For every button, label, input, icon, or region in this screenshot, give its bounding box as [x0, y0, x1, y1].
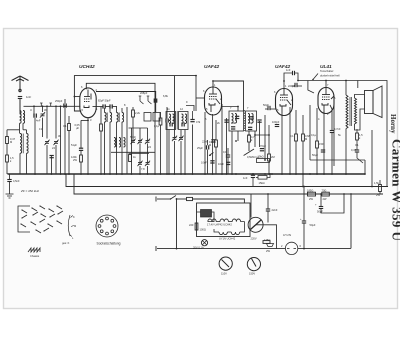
wire: IF1 drops — [169, 76, 204, 175]
tone switch — [312, 79, 314, 81]
wire: left heater vertical — [176, 199, 178, 249]
svg-text:15kΩ: 15kΩ — [258, 155, 264, 159]
tube socket diagram — [96, 215, 118, 237]
capacitor blob input — [33, 114, 35, 118]
volume potentiometer 0,5M log — [244, 142, 254, 156]
resistor 120k 2W — [80, 155, 83, 162]
svg-text:10nF: 10nF — [218, 162, 224, 166]
wire: B+ top line from UCH42 area to IF1 — [74, 76, 196, 111]
antenna plug — [19, 89, 22, 92]
wire: grid/osc node — [93, 106, 104, 108]
svg-text:208pF: 208pF — [140, 91, 148, 95]
svg-text:70Ω: 70Ω — [322, 189, 327, 193]
svg-text:10nF: 10nF — [201, 161, 207, 165]
mains switch — [170, 198, 171, 199]
svg-text:185Ω: 185Ω — [307, 189, 313, 193]
svg-text:0,1: 0,1 — [290, 134, 294, 138]
electrolytic 50uF + — [302, 221, 306, 223]
resistor 150 cathode UL41 — [316, 141, 319, 148]
resistor 0,1M — [295, 134, 298, 141]
wire: osc vertical from top line — [174, 76, 176, 131]
svg-text:22nF: 22nF — [202, 140, 208, 144]
svg-text:150: 150 — [319, 142, 324, 146]
trimmer pair right row1 — [172, 136, 177, 141]
heater UCH42b — [231, 232, 239, 235]
resistor R2 1,5k — [6, 155, 9, 162]
transformer core — [349, 97, 351, 126]
trimmer input — [40, 112, 45, 117]
svg-text:K: K — [73, 215, 75, 219]
antenna coil L1 — [20, 111, 22, 121]
capacitor 10nF — [210, 160, 214, 162]
svg-text:0,1: 0,1 — [355, 143, 359, 147]
wire: antenna node to input circuit — [19, 100, 21, 111]
capacitor 0,1uF — [226, 155, 230, 157]
resistor 1,5k right — [356, 133, 359, 140]
wire: heater rows — [197, 212, 245, 232]
svg-text:4,7nF: 4,7nF — [334, 127, 341, 131]
wire drops — [47, 131, 69, 175]
left column: coupling — [80, 120, 82, 148]
svg-text:15k: 15k — [231, 121, 236, 125]
svg-text:50p: 50p — [248, 121, 253, 125]
svg-text:2W: 2W — [73, 158, 77, 162]
wire: UL41 to top line — [325, 81, 327, 88]
switch contact b — [50, 103, 52, 106]
IF2 outer capacitor left — [224, 119, 228, 121]
resistor 15k below bus — [258, 176, 267, 180]
wire: tone feedback — [310, 130, 372, 187]
wire — [252, 174, 254, 175]
oscillator feedback coil — [114, 138, 116, 148]
capacitor 4,5nF to chassis ground — [9, 174, 11, 179]
svg-text:47k: 47k — [196, 120, 201, 124]
capacitor 10nF AF — [226, 161, 230, 163]
svg-text:µF: µF — [76, 126, 79, 130]
svg-text:4nF: 4nF — [36, 119, 41, 123]
svg-text:70pF: 70pF — [260, 144, 266, 148]
wire: screen line — [86, 83, 155, 128]
antenna — [12, 76, 29, 92]
svg-text:0,1: 0,1 — [63, 124, 67, 128]
output transformer secondary — [355, 98, 357, 124]
wire: UAF42-1 pin2 to IF2 — [222, 107, 239, 112]
wire: grid resistor drop — [100, 107, 102, 125]
resistor 0,1M right — [68, 124, 71, 131]
switch contact a — [40, 103, 42, 106]
anode capacitor 4,7nF — [330, 131, 334, 133]
svg-text:1nF: 1nF — [286, 68, 291, 72]
contact arrow — [209, 153, 214, 156]
svg-text:Carmen W 359 U: Carmen W 359 U — [390, 139, 400, 241]
UAF42 tube 2 — [276, 89, 293, 116]
node drops to chassis: left tuner — [20, 99, 70, 174]
svg-text:UAF42: UAF42 — [204, 64, 220, 70]
UAF42 tube 1 — [205, 87, 222, 115]
capacitor 1nF below bus — [251, 174, 255, 176]
resistor 0,1M cathode — [215, 140, 218, 147]
heater UAF42 — [220, 219, 228, 222]
oscillator coils L3 — [105, 113, 107, 123]
wire: UL41 cathode drops — [310, 103, 334, 174]
svg-text:UY1N UCH42: UY1N UCH42 — [219, 237, 236, 241]
wire: IF2 connections — [227, 115, 266, 174]
heater UF41 — [208, 219, 216, 222]
svg-text:100Ω: 100Ω — [200, 228, 206, 232]
resistor 2M — [268, 154, 271, 161]
svg-text:UCH42: UCH42 — [79, 64, 95, 70]
svg-text:0,1µ: 0,1µ — [154, 124, 160, 128]
svg-text:M: M — [209, 143, 211, 147]
capacitor 22nF — [211, 139, 215, 141]
svg-text:0,1µ: 0,1µ — [311, 133, 317, 137]
capacitor 25uF cathode — [206, 145, 208, 149]
input bandfilter coil L2 — [20, 134, 22, 144]
capacitor 1nF — [18, 97, 22, 99]
trimmer bank row1 — [130, 139, 135, 144]
svg-text:250pF: 250pF — [55, 99, 63, 103]
svg-text:15kΩ: 15kΩ — [259, 181, 265, 185]
capacitor 50pF — [109, 104, 111, 108]
bus C — [74, 174, 383, 194]
svg-text:1nF: 1nF — [26, 95, 31, 99]
svg-text:dunkel-mittel-hell: dunkel-mittel-hell — [320, 74, 340, 78]
svg-text:100pF: 100pF — [272, 120, 280, 124]
ground — [6, 194, 14, 198]
coupling capacitor 1nF — [293, 71, 295, 75]
resistor 50k grid — [100, 124, 103, 131]
resistor 0,68M — [302, 134, 305, 141]
svg-text:220V: 220V — [251, 237, 257, 241]
capacitor 82pF — [102, 104, 104, 108]
wire — [193, 199, 245, 203]
heater chain box — [197, 203, 251, 237]
svg-text:220: 220 — [189, 223, 194, 227]
svg-text:4,5nF: 4,5nF — [13, 179, 20, 183]
heater UCH42 — [232, 219, 240, 222]
trimmer C5 — [44, 140, 49, 145]
resistor box 15k — [257, 159, 270, 163]
capacitor 50pF grid — [268, 106, 270, 110]
rectifier UY1N — [285, 242, 297, 254]
wire: grid line UL41 — [298, 81, 387, 187]
resistor 4,7k — [248, 135, 251, 142]
svg-text:UY1N: UY1N — [283, 233, 292, 237]
svg-text:Sockelschaltung: Sockelschaltung — [97, 242, 121, 246]
IF2 outer capacitor right — [257, 119, 261, 121]
wire: selector connections — [251, 194, 277, 249]
voltage selector — [248, 217, 263, 232]
svg-text:82pF 50pF: 82pF 50pF — [98, 99, 111, 103]
svg-text:50pF: 50pF — [130, 135, 136, 139]
svg-text:175Ω: 175Ω — [264, 238, 270, 242]
svg-text:Horny: Horny — [389, 114, 397, 134]
resistor 185 ohm 2W — [308, 192, 316, 196]
UAF42-1 internals — [209, 87, 220, 112]
svg-text:50µF: 50µF — [312, 153, 318, 157]
svg-text:M: M — [74, 224, 76, 228]
knob 2 — [247, 258, 260, 271]
knob 1 — [219, 257, 232, 270]
mains lead bottom — [157, 248, 286, 250]
resistor 100 ohm — [195, 223, 198, 230]
chassis bus (thick) — [8, 173, 366, 175]
capacitor 100pF — [275, 125, 279, 127]
resistor R1 0,47M — [6, 137, 9, 144]
output transformer primary — [346, 95, 348, 129]
svg-text:M: M — [10, 140, 12, 144]
IF transformer 2 — [229, 110, 257, 131]
wire: rectifier output — [298, 247, 351, 249]
svg-text:50µF: 50µF — [310, 223, 316, 227]
svg-text:150V: 150V — [249, 272, 255, 276]
band switch detail box — [18, 206, 63, 233]
mains lead top — [157, 198, 170, 200]
svg-text:Chassis: Chassis — [30, 254, 40, 258]
IF2 trimmers — [231, 126, 235, 128]
IF2 tuning blobs — [235, 115, 239, 117]
UAF42-2 internals — [280, 89, 291, 114]
resistor 2,2k — [132, 110, 135, 117]
svg-text:2W: 2W — [323, 197, 327, 201]
chassis zigzag — [28, 248, 40, 252]
svg-text:Tonschalter:: Tonschalter: — [320, 69, 334, 73]
wire: B+ vertical right — [350, 194, 352, 248]
svg-text:1nF: 1nF — [243, 176, 248, 180]
svg-text:7,8: 7,8 — [141, 167, 145, 171]
wire: UAF42-1 anode to IF2 — [213, 81, 244, 111]
svg-text:50pF: 50pF — [263, 103, 269, 107]
capacitor 22nF mains — [266, 209, 270, 211]
wire: UAF42-1 cathode resistor drops — [205, 104, 222, 174]
band arc — [68, 215, 70, 236]
wire — [111, 151, 155, 153]
capacitor 51uF — [79, 147, 83, 149]
UCH42 tube — [80, 88, 96, 118]
wire antenna to tuner — [19, 99, 21, 114]
capacitor 70pF — [260, 148, 264, 150]
resistor 1k — [129, 155, 132, 162]
svg-text:U: U — [30, 108, 32, 112]
svg-text:20V 0,1A: 20V 0,1A — [193, 246, 204, 250]
wire — [26, 130, 28, 134]
svg-text:2W: 2W — [266, 249, 270, 253]
svg-text:6,8k: 6,8k — [163, 94, 169, 98]
switch contact 4 — [147, 96, 149, 101]
wire — [7, 129, 20, 131]
svg-text:2W: 2W — [309, 197, 313, 201]
wire: UAF42-2 drops — [282, 107, 303, 187]
NTC resistor — [201, 210, 212, 218]
wire — [177, 198, 187, 200]
trimmer bank row2 — [137, 161, 142, 166]
trimmer C6 — [53, 140, 58, 145]
capacitor 50uF cathode — [321, 150, 325, 152]
svg-text:110V: 110V — [221, 272, 227, 276]
capacitor blob lower — [50, 155, 54, 157]
svg-text:22nF: 22nF — [272, 208, 278, 212]
svg-text:2M: 2M — [271, 155, 275, 159]
IF1 side trimmers — [169, 123, 171, 127]
UCH42 internals: anode, grids, cathode — [84, 90, 91, 108]
svg-text:ges: K: ges: K — [62, 241, 70, 245]
switch contact 5 — [139, 96, 141, 101]
svg-text:51µF: 51µF — [71, 143, 77, 147]
wires osc coils — [105, 107, 128, 175]
capacitor 220pF — [295, 83, 297, 87]
svg-text:2,2k: 2,2k — [135, 111, 141, 115]
capacitor 250pF — [63, 104, 65, 108]
capacitor 0,47uF tone — [355, 150, 359, 152]
svg-text:M: M — [305, 137, 307, 141]
IF transformer 1 — [166, 111, 188, 130]
oscillator padder box — [144, 113, 151, 122]
svg-text:17,4V UAF42 UCH42: 17,4V UAF42 UCH42 — [207, 222, 232, 226]
UL41 tube — [318, 88, 334, 114]
svg-text:25µF: 25µF — [197, 146, 203, 150]
capacitor 47k blob — [190, 119, 194, 121]
resistor 1,5k 2W right edge — [379, 185, 382, 192]
capacitor blob — [165, 119, 167, 123]
resistor 175 2W before rectifier — [263, 241, 270, 244]
wire: grid pin — [74, 96, 80, 98]
wire: UCH42 cathode stem — [87, 118, 89, 174]
svg-text:ZF = 452 kHz: ZF = 452 kHz — [20, 189, 40, 193]
bus B — [66, 174, 388, 187]
capacitor 208pF blob — [153, 99, 155, 103]
resistor 70 ohm 2W — [322, 192, 330, 196]
electrolytic 50uF second — [319, 207, 323, 209]
UL41 internals — [322, 88, 334, 114]
svg-text:1,5k: 1,5k — [374, 181, 380, 185]
fuse — [187, 197, 193, 200]
wire: diode detector — [255, 125, 269, 135]
wire: AF coupling — [284, 73, 293, 89]
svg-text:0,47: 0,47 — [351, 148, 357, 152]
heater UY1N — [219, 232, 227, 235]
dial lamp 20V 0,1A — [201, 240, 207, 246]
wire: transformer connections — [308, 81, 365, 175]
wires trimmer bank — [129, 128, 182, 174]
speaker — [365, 91, 374, 114]
wire: anode of UCH42 to osc cap — [96, 92, 156, 113]
